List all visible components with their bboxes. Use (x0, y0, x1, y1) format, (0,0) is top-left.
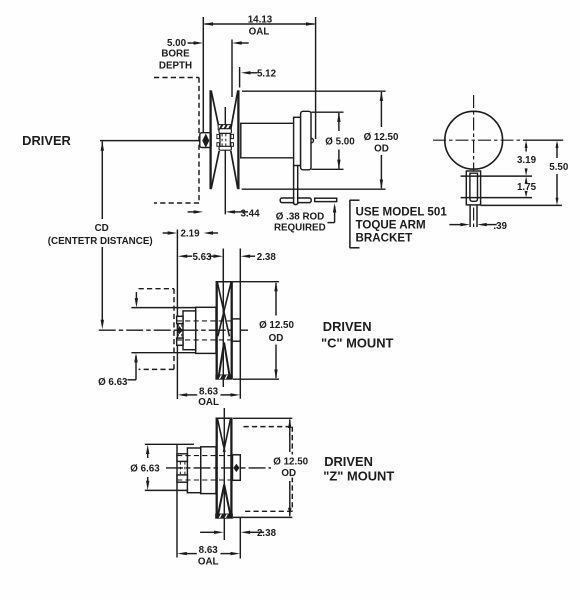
extension line pulley OD top (242, 90, 386, 92)
svg-text:1.75: 1.75 (517, 182, 537, 193)
dim 3.19 (525, 144, 527, 152)
svg-text:Ø 5.00: Ø 5.00 (325, 136, 355, 147)
svg-text:Ø 12.50: Ø 12.50 (273, 457, 308, 468)
svg-text:REQUIRED: REQUIRED (274, 223, 326, 234)
Z-mount axis centerline (166, 467, 296, 469)
bracket ball circle (445, 111, 503, 169)
svg-text:Ø 6.63: Ø 6.63 (98, 377, 128, 388)
svg-text:"C" MOUNT: "C" MOUNT (321, 336, 393, 351)
svg-text:3.19: 3.19 (517, 155, 537, 166)
svg-text:DEPTH: DEPTH (159, 60, 192, 71)
svg-text:"Z" MOUNT: "Z" MOUNT (323, 468, 394, 483)
C-mount pulley lower section triangle (219, 343, 230, 376)
note bracket USE MODEL 501 TOQUE ARM BRACKET (349, 200, 351, 248)
extension line stem lower (461, 197, 532, 199)
svg-text:OD: OD (374, 143, 389, 154)
motor shaft cylinder (240, 123, 242, 158)
leader line from DRIVER to pulley hub (100, 140, 200, 142)
Z-mount hub boss right with diamond (233, 455, 241, 481)
shaft end bump (311, 138, 313, 142)
svg-text:5.12: 5.12 (257, 68, 277, 79)
svg-text:OD: OD (281, 468, 296, 479)
C-mount bore hidden lines (177, 320, 241, 322)
Z-mount pulley lower section triangle (218, 485, 230, 514)
driver pulley right sheave (237, 90, 239, 189)
dim 14.13 OAL (202, 17, 204, 132)
Z-mount pulley sheaves (216, 418, 218, 518)
svg-text:OAL: OAL (249, 27, 270, 38)
dim 2.38 Z-mount (200, 531, 215, 533)
mounting ring collar (294, 117, 301, 165)
dim 1.75 (525, 176, 528, 184)
bracket vertical centerline (473, 95, 475, 229)
C-mount pilot register lines (131, 307, 195, 309)
dim 5.50 (556, 144, 558, 158)
C-mount pulley bottom hatched band (216, 375, 232, 379)
flange plate (301, 111, 311, 170)
rod bar left (280, 198, 311, 203)
bracket horizontal centerline (433, 139, 523, 141)
C-mount hub boss right (232, 319, 240, 341)
rod bar right (315, 198, 337, 201)
bracket rod below stem (469, 205, 471, 227)
svg-text:DRIVEN: DRIVEN (324, 454, 373, 469)
C-mount axis centerline (99, 329, 248, 331)
Z-mount hub stepped cylinder (201, 447, 216, 494)
driver pulley hub hatched band (218, 125, 231, 130)
svg-text:BORE: BORE (161, 49, 190, 60)
svg-text:14.13: 14.13 (248, 15, 273, 26)
driver pulley hub bands and bore block (219, 129, 231, 134)
Z-mount dashed rectangle (244, 426, 293, 428)
svg-text:2.19: 2.19 (180, 229, 200, 240)
dim 8.63 OAL C-mount (186, 394, 197, 396)
svg-text:2.38: 2.38 (257, 252, 277, 263)
C-mount pulley sheaves (216, 282, 218, 380)
svg-text:5.50: 5.50 (549, 162, 569, 173)
C-mount set-screw diamond (177, 327, 183, 334)
bracket stem inner slot (470, 173, 478, 201)
torque arm strip (294, 166, 298, 205)
svg-text:2.38: 2.38 (257, 528, 277, 539)
driver pulley groove centerline (224, 107, 226, 124)
Z-mount bore hidden lines (177, 455, 240, 457)
dim 5.63 (186, 255, 192, 257)
Z-mount pulley bottom hatched band (216, 514, 233, 518)
dim 5.12 (239, 67, 241, 88)
extension line pulley OD bottom (242, 188, 386, 190)
svg-text:8.63: 8.63 (199, 545, 219, 556)
svg-text:DRIVEN: DRIVEN (323, 319, 372, 334)
svg-text:.39: .39 (493, 221, 507, 232)
dim O 12.50 OD Z-mount (233, 417, 292, 419)
Z-mount groove centerline (223, 408, 225, 540)
svg-text:Ø 12.50: Ø 12.50 (259, 320, 294, 331)
Z-mount left extension line (176, 444, 178, 558)
svg-text:Ø .38 ROD: Ø .38 ROD (276, 211, 324, 222)
extension line stem bottom (481, 204, 562, 206)
C-mount right extension line (239, 249, 241, 399)
dim O 12.50 OD driver (380, 92, 382, 127)
leader O 6.63 C-mount (128, 379, 137, 381)
leader O .38 ROD (328, 222, 335, 224)
extension line stem upper (461, 175, 532, 177)
dim O 5.00 flange (311, 111, 343, 113)
C-mount dashed motor flange rectangle (139, 288, 174, 290)
svg-text:OAL: OAL (198, 397, 219, 408)
dashed rectangle - motor outline (154, 77, 199, 79)
svg-text:OAL: OAL (198, 557, 219, 568)
svg-text:USE MODEL 501: USE MODEL 501 (356, 206, 448, 219)
C-mount hub stepped cylinder (196, 307, 216, 353)
svg-text:TOQUE ARM: TOQUE ARM (356, 219, 426, 232)
Z-mount right extension line (239, 518, 241, 559)
svg-text:DRIVER: DRIVER (22, 133, 71, 148)
CD dimension vertical line with arrows (101, 142, 103, 220)
svg-text:BRACKET: BRACKET (356, 232, 413, 245)
bracket stem outer (466, 171, 480, 205)
svg-text:(CENTETR DISTANCE): (CENTETR DISTANCE) (48, 236, 153, 247)
svg-text:OD: OD (269, 333, 284, 344)
C-mount groove centerline (222, 249, 224, 388)
svg-text:Ø 6.63: Ø 6.63 (130, 464, 160, 475)
svg-text:8.63: 8.63 (199, 386, 219, 397)
dim 2.19 (163, 232, 169, 234)
dim 8.63 OAL Z-mount (186, 553, 197, 555)
driver pulley left sheave (209, 90, 211, 189)
dim O 12.50 OD C-mount (233, 281, 279, 283)
dim 3.44 (188, 211, 195, 213)
svg-text:Ø 12.50: Ø 12.50 (364, 132, 399, 143)
Z-mount pilot register lines (145, 443, 194, 445)
svg-text:CD: CD (95, 223, 109, 234)
svg-text:5.00: 5.00 (167, 38, 187, 49)
dim .39 (449, 224, 461, 226)
svg-text:3.44: 3.44 (240, 209, 260, 220)
dim 2.38 C-mount (249, 255, 255, 257)
svg-text:5.63: 5.63 (192, 252, 212, 263)
driver hub left flange with set-screw diamond (200, 133, 211, 148)
C-mount left extension line (176, 230, 178, 400)
dim O 6.63 Z-mount (147, 453, 149, 458)
